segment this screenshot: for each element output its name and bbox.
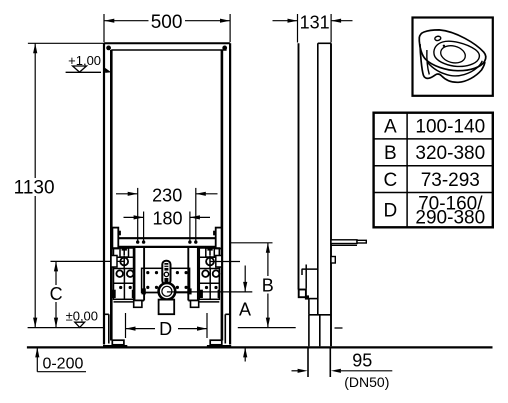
centre mounting plate: [142, 268, 190, 292]
drain pipe front: [159, 300, 175, 315]
left slide bar: [135, 247, 145, 301]
stud holes on crossbar: [136, 240, 198, 243]
right rail telescopic leg: [225, 314, 230, 343]
svg-text:320-380: 320-380: [415, 143, 485, 164]
drain pipe below floor (side): [308, 349, 330, 378]
svg-text:500: 500: [151, 12, 183, 33]
bidet icon: [419, 30, 485, 82]
dimension 230 (bolt spacing outer): [116, 188, 218, 241]
crossbar left end cap: [112, 228, 118, 249]
level mark +1,00: [66, 66, 112, 73]
side view rail: [298, 43, 300, 289]
crossbar: [112, 238, 221, 247]
side adjuster square: [299, 290, 306, 298]
svg-text:(DN50): (DN50): [344, 374, 389, 390]
crossbar right end cap: [216, 228, 222, 249]
dimension C (bolt height range): [51, 261, 125, 327]
side view panel: [318, 43, 331, 346]
svg-text:D: D: [159, 319, 172, 339]
svg-text:0-200: 0-200: [42, 356, 83, 373]
dimension 180 (bolt spacing inner): [124, 212, 211, 242]
right slide foot: [191, 301, 199, 308]
left slide foot: [134, 301, 142, 308]
dimension 95 (DN50 drain offset): [292, 369, 393, 373]
floor line: [27, 346, 493, 348]
A leader line: [175, 291, 230, 293]
svg-text:C: C: [384, 170, 398, 191]
frame right rail: [222, 43, 230, 344]
plate corner blocks: [142, 288, 146, 294]
frame top bar: [104, 43, 230, 50]
svg-text:180: 180: [152, 209, 182, 229]
right foot base: [207, 345, 231, 348]
svg-text:95: 95: [352, 350, 372, 370]
dimension 1130 (frame height): [28, 43, 104, 327]
dimension D (drain spacing): [126, 313, 208, 338]
dimension B (stud height): [230, 243, 272, 328]
left foot base: [103, 345, 127, 348]
right foot plate: [210, 340, 222, 345]
svg-text:D: D: [384, 201, 398, 222]
corner screw left: [106, 46, 111, 51]
svg-text:230: 230: [152, 185, 182, 205]
svg-text:±0,00: ±0,00: [66, 308, 98, 323]
drain bend (side): [306, 299, 331, 347]
dimension A (drain height): [230, 266, 252, 362]
svg-text:290-380: 290-380: [415, 207, 485, 228]
side adjuster bolt: [305, 295, 309, 299]
svg-text:B: B: [262, 275, 274, 295]
svg-text:1130: 1130: [14, 177, 55, 198]
pivot cross (side): [302, 265, 318, 289]
left wall bracket: [111, 248, 134, 302]
dimension 500 (frame width): [104, 14, 230, 42]
left rail telescopic leg: [104, 314, 109, 343]
level mark ±0,00: [28, 322, 343, 328]
frame left rail: [104, 43, 111, 344]
svg-text:A: A: [239, 300, 251, 320]
svg-text:A: A: [384, 116, 397, 137]
corner screw right: [222, 46, 227, 51]
right slide bar: [188, 247, 198, 301]
stud arm (side): [331, 240, 366, 246]
svg-text:131: 131: [300, 13, 330, 33]
panel clip: [331, 257, 335, 264]
svg-text:+1,00: +1,00: [68, 53, 101, 68]
dimension 0-200 (floor offset): [35, 347, 86, 371]
right wall bracket: [199, 248, 240, 302]
svg-text:100-140: 100-140: [415, 116, 485, 137]
bidet icon box: [413, 18, 493, 96]
drain circle: [159, 283, 176, 300]
svg-text:73-293: 73-293: [421, 170, 480, 191]
plate rivets: [146, 271, 188, 289]
centre adjuster capsule: [162, 261, 170, 284]
svg-text:C: C: [50, 284, 63, 304]
dimension 131 (side depth): [273, 14, 353, 43]
svg-text:B: B: [384, 143, 397, 164]
spec table: [374, 113, 493, 228]
plate bottom line: [142, 292, 159, 294]
left foot plate: [112, 340, 124, 345]
